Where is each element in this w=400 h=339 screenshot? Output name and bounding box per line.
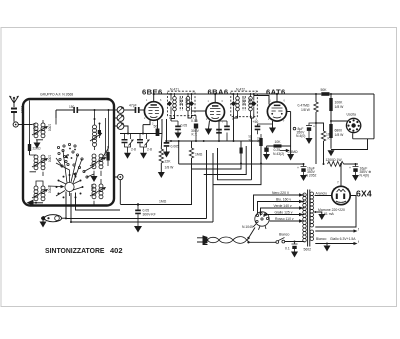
svg-text:+: + xyxy=(297,166,299,170)
svg-text:6X4: 6X4 xyxy=(356,189,372,199)
T1 pin numbers xyxy=(169,91,195,121)
svg-text:Giallo 125 v: Giallo 125 v xyxy=(275,211,293,215)
svg-text:N.43(2): N.43(2) xyxy=(273,152,284,156)
svg-text:1200Ω 1W: 1200Ω 1W xyxy=(326,158,343,162)
right edge drop xyxy=(373,94,375,139)
svg-text:f: f xyxy=(358,240,359,244)
cap 0.05 under 6BA6/T2 xyxy=(226,121,228,141)
wafer exit wires to bottom xyxy=(66,192,120,223)
svg-text:300V-KF: 300V-KF xyxy=(143,212,156,216)
transformer T (5602) xyxy=(303,192,314,242)
resistor 100 (6AT6) xyxy=(259,138,262,146)
trimmer left xyxy=(129,140,134,146)
resistor 1200 ohm 1W xyxy=(328,161,344,166)
tuning gang section 2 xyxy=(117,115,124,122)
AVC bus line 4 xyxy=(213,146,261,185)
svg-text:Bianco: Bianco xyxy=(316,237,326,241)
volume pot 0.5M wiper xyxy=(280,150,288,152)
cap 0.05 300V KF xyxy=(137,203,139,205)
top B+ rail xyxy=(154,93,374,95)
arrow through R2 xyxy=(90,158,104,166)
voltage selector N.1045 xyxy=(253,212,269,230)
svg-text:1000: 1000 xyxy=(48,155,52,162)
svg-text:Uscita: Uscita xyxy=(347,113,357,117)
svg-text:2-8: 2-8 xyxy=(131,148,136,152)
arrow through R1 xyxy=(90,133,102,141)
svg-text:Verde 140 v: Verde 140 v xyxy=(274,204,292,208)
socket wires xyxy=(331,121,353,139)
heater winding wires xyxy=(315,230,355,232)
T2 pin numbers xyxy=(232,91,258,122)
coil pair L3 (box lower-left) xyxy=(34,181,45,203)
resistor 1M (vertical) xyxy=(191,141,193,148)
coil pair R3 (box lower-right) xyxy=(92,179,103,205)
6AT6 cathode ground xyxy=(272,121,274,128)
gang stubs to box xyxy=(114,110,117,126)
capacitor 2000 (antenna) xyxy=(11,108,17,114)
svg-text:2000: 2000 xyxy=(20,106,24,113)
tuning gang section 3 xyxy=(117,123,124,130)
coil pair L1 (box upper-left) xyxy=(30,101,57,145)
svg-text:N.1045: N.1045 xyxy=(242,225,253,229)
resistor 6800 1/8W xyxy=(330,120,332,122)
cap 150 on top bus in box xyxy=(56,109,114,111)
transformer primary taps xyxy=(254,195,305,221)
svg-text:N.4(0): N.4(0) xyxy=(296,134,305,138)
cap +50 (cathode bypass) xyxy=(258,124,273,126)
6BE6 plate to rail xyxy=(153,94,155,102)
dial lamp xyxy=(45,215,62,222)
resistor 100K 1/8W xyxy=(330,94,332,98)
capacitor 47pF xyxy=(135,107,140,113)
ground under padder right xyxy=(143,147,145,153)
svg-text:Blu. 160 v: Blu. 160 v xyxy=(276,198,291,202)
ground arrow under L1 xyxy=(36,140,38,143)
6BE6 cathode + resistor 50 xyxy=(157,120,159,136)
svg-text:1000: 1000 xyxy=(90,184,94,191)
wire antenna to coil xyxy=(18,124,32,126)
svg-text:+: + xyxy=(349,166,351,170)
antenna terminal xyxy=(13,122,18,127)
svg-text:Rosso 110 v: Rosso 110 v xyxy=(275,217,294,221)
6X4 cathode riser xyxy=(340,164,342,186)
AVC terminal on box xyxy=(118,174,123,179)
svg-text:402: 402 xyxy=(110,246,123,255)
rotary switch wafer xyxy=(65,182,74,191)
heater drop 2 xyxy=(212,153,214,222)
svg-text:1000: 1000 xyxy=(241,98,245,105)
16uF 350V N.2052 xyxy=(303,163,305,165)
wire 47pF to 6BE6 grid xyxy=(140,109,145,111)
grid wire T1 to 6BA6 xyxy=(192,110,206,112)
coil pair R2 (box mid-right) xyxy=(92,154,103,176)
cap 8uF xyxy=(309,123,316,126)
6AT6 plate to rail xyxy=(276,94,278,102)
cap 0.25 xyxy=(266,146,268,148)
svg-text:0.05: 0.05 xyxy=(181,124,188,128)
svg-text:22KΩ: 22KΩ xyxy=(33,147,42,151)
wafer feed arrowheads xyxy=(61,185,65,188)
resistor 0.47M (plate load) xyxy=(315,94,317,102)
cap 0.05 300V K.T. xyxy=(195,116,197,142)
svg-text:Bianco: Bianco xyxy=(279,233,289,237)
resistor 100K (AVC) xyxy=(316,123,324,131)
resistor 50K on rail xyxy=(321,92,329,96)
svg-text:2000: 2000 xyxy=(48,186,52,193)
svg-text:f: f xyxy=(358,228,359,232)
T1 tuning caps xyxy=(167,101,172,106)
6X4 plate wires xyxy=(315,196,357,228)
svg-text:K.T.: K.T. xyxy=(192,133,198,137)
resistor 22K (in box) xyxy=(29,140,31,144)
grid wire T2 to 6AT6 xyxy=(254,96,269,105)
ground arrow under R3 xyxy=(91,176,98,182)
pin numbers 6X4 xyxy=(333,188,350,191)
pin numbers 6AT6 xyxy=(268,100,286,124)
svg-text:1000: 1000 xyxy=(185,98,189,105)
svg-text:N.4(0): N.4(0) xyxy=(360,174,369,178)
T2 tuning caps xyxy=(231,101,236,106)
wire to selector xyxy=(249,228,256,239)
svg-text:47pF: 47pF xyxy=(129,103,137,107)
svg-text:N 2052: N 2052 xyxy=(306,174,317,178)
6BA6 screen cap xyxy=(218,121,220,141)
wafer extra contacts xyxy=(63,143,76,147)
line to socket loop xyxy=(331,139,374,150)
svg-text:+: + xyxy=(313,125,315,129)
T2 bottom wires xyxy=(234,115,254,180)
mixer line xyxy=(120,133,162,135)
svg-text:2-8: 2-8 xyxy=(147,148,152,152)
svg-text:Giallo 6.3V+1.5A: Giallo 6.3V+1.5A xyxy=(330,237,356,241)
cap 0.05 (6BE6 AVC) xyxy=(171,121,178,126)
resistor 10K xyxy=(267,145,291,147)
resistor 22K 1/2W xyxy=(160,148,162,149)
6BA6 plate to rail xyxy=(214,94,216,103)
AVC bus line 2 xyxy=(204,146,247,175)
svg-text:N.472: N.472 xyxy=(236,88,245,92)
resistor 5600 (box) xyxy=(107,152,110,161)
coil pair L2 (box mid-left) xyxy=(30,155,46,176)
ground under padder left xyxy=(127,147,129,153)
svg-text:1/8 W: 1/8 W xyxy=(301,108,311,112)
arrow through L3 xyxy=(32,190,46,198)
shield box GRUPPO A.F. N 2668 xyxy=(23,99,114,206)
arrow through L1 xyxy=(32,127,46,135)
svg-text:5602: 5602 xyxy=(304,248,312,252)
mains switch xyxy=(249,241,277,243)
tuning gang section 1 xyxy=(117,107,124,114)
svg-text:100: 100 xyxy=(257,137,261,143)
cap 0.005 (6BE6 plate decoupling) xyxy=(166,119,168,142)
6BA6 cathode ground xyxy=(209,121,210,129)
svg-text:97 K: 97 K xyxy=(247,135,251,142)
svg-text:6BE6: 6BE6 xyxy=(142,88,163,97)
svg-text:6BA6: 6BA6 xyxy=(208,88,229,97)
heater drop 1 xyxy=(206,150,208,219)
svg-text:0.005: 0.005 xyxy=(171,145,180,149)
antenna xyxy=(10,96,19,107)
AVC bus line 3 xyxy=(218,148,252,180)
padder cap right xyxy=(139,134,141,140)
svg-text:1/8 W: 1/8 W xyxy=(335,105,345,109)
svg-text:6AT6: 6AT6 xyxy=(266,88,286,97)
link screen rail to AVC rail xyxy=(178,141,180,164)
mains plug xyxy=(197,236,208,245)
svg-text:GRUPPO A.F. N 2668: GRUPPO A.F. N 2668 xyxy=(40,93,73,97)
coil R1 (box upper-right) xyxy=(93,110,109,160)
arrow through R3 xyxy=(90,188,104,196)
svg-text:50K: 50K xyxy=(321,88,328,92)
svg-text:1MΩ: 1MΩ xyxy=(195,153,203,157)
svg-text:1MΩ: 1MΩ xyxy=(159,200,167,204)
center tap Marrone xyxy=(315,212,322,214)
arrow through L2 xyxy=(32,159,46,167)
svg-text:1000: 1000 xyxy=(48,124,52,131)
svg-text:2000: 2000 xyxy=(32,124,36,131)
cap 0.1 xyxy=(292,242,298,245)
svg-text:61 mA: 61 mA xyxy=(324,212,335,216)
6BE6 osc grid wire xyxy=(143,120,150,133)
svg-text:1/8 W: 1/8 W xyxy=(165,166,175,170)
B+ rail right of 1200 xyxy=(344,163,358,165)
wire gang3 to mixer caps xyxy=(124,126,128,134)
pin numbers 6BE6 xyxy=(144,99,163,126)
twisted cord xyxy=(208,237,249,244)
trimmer right xyxy=(145,140,150,146)
lamp heater lines xyxy=(62,217,67,219)
detector network xyxy=(287,112,291,155)
svg-text:10K: 10K xyxy=(275,140,282,144)
screen rail y141 xyxy=(165,140,262,142)
svg-text:Arancio: Arancio xyxy=(316,191,328,195)
16uF 350V N.4(0) xyxy=(355,163,357,165)
svg-text:1000: 1000 xyxy=(248,98,252,105)
svg-text:SINTONIZZATORE: SINTONIZZATORE xyxy=(45,246,105,255)
6BE6 IF out wire xyxy=(160,119,163,148)
svg-text:Nero 220 V: Nero 220 V xyxy=(272,191,290,195)
padder cap left xyxy=(124,134,126,140)
svg-text:50: 50 xyxy=(154,125,158,129)
pin numbers 6BA6 xyxy=(206,100,224,124)
svg-text:f: f xyxy=(338,181,339,185)
svg-text:1/8 W: 1/8 W xyxy=(335,133,345,137)
AVC bus line 1 xyxy=(192,141,242,169)
svg-text:0.5MΩ: 0.5MΩ xyxy=(288,150,299,154)
cord junctions xyxy=(247,237,249,239)
svg-text:1000: 1000 xyxy=(179,98,183,105)
AVC rail y164 xyxy=(179,163,304,165)
wire gang to 47pF xyxy=(124,109,135,111)
T1 bottom wires xyxy=(171,115,192,122)
svg-text:0.1: 0.1 xyxy=(285,247,290,251)
AVC line with 1M resistor xyxy=(120,169,191,204)
wafer wires xyxy=(48,151,94,197)
svg-text:22K: 22K xyxy=(165,160,172,164)
left arrow to frame xyxy=(32,202,43,204)
svg-text:150: 150 xyxy=(69,105,75,109)
